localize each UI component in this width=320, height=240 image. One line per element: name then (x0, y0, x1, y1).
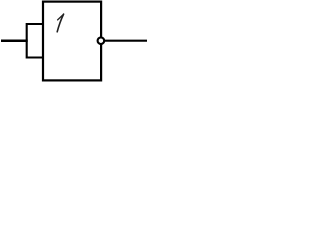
gate body U1 (IEC rectangle, inverter) (43, 2, 101, 81)
input extension box (27, 24, 43, 58)
function label 1 (italic digit, drawn) (57, 14, 63, 32)
inversion bubble (98, 37, 105, 44)
wire input (1, 40, 28, 43)
wire output (105, 40, 147, 42)
